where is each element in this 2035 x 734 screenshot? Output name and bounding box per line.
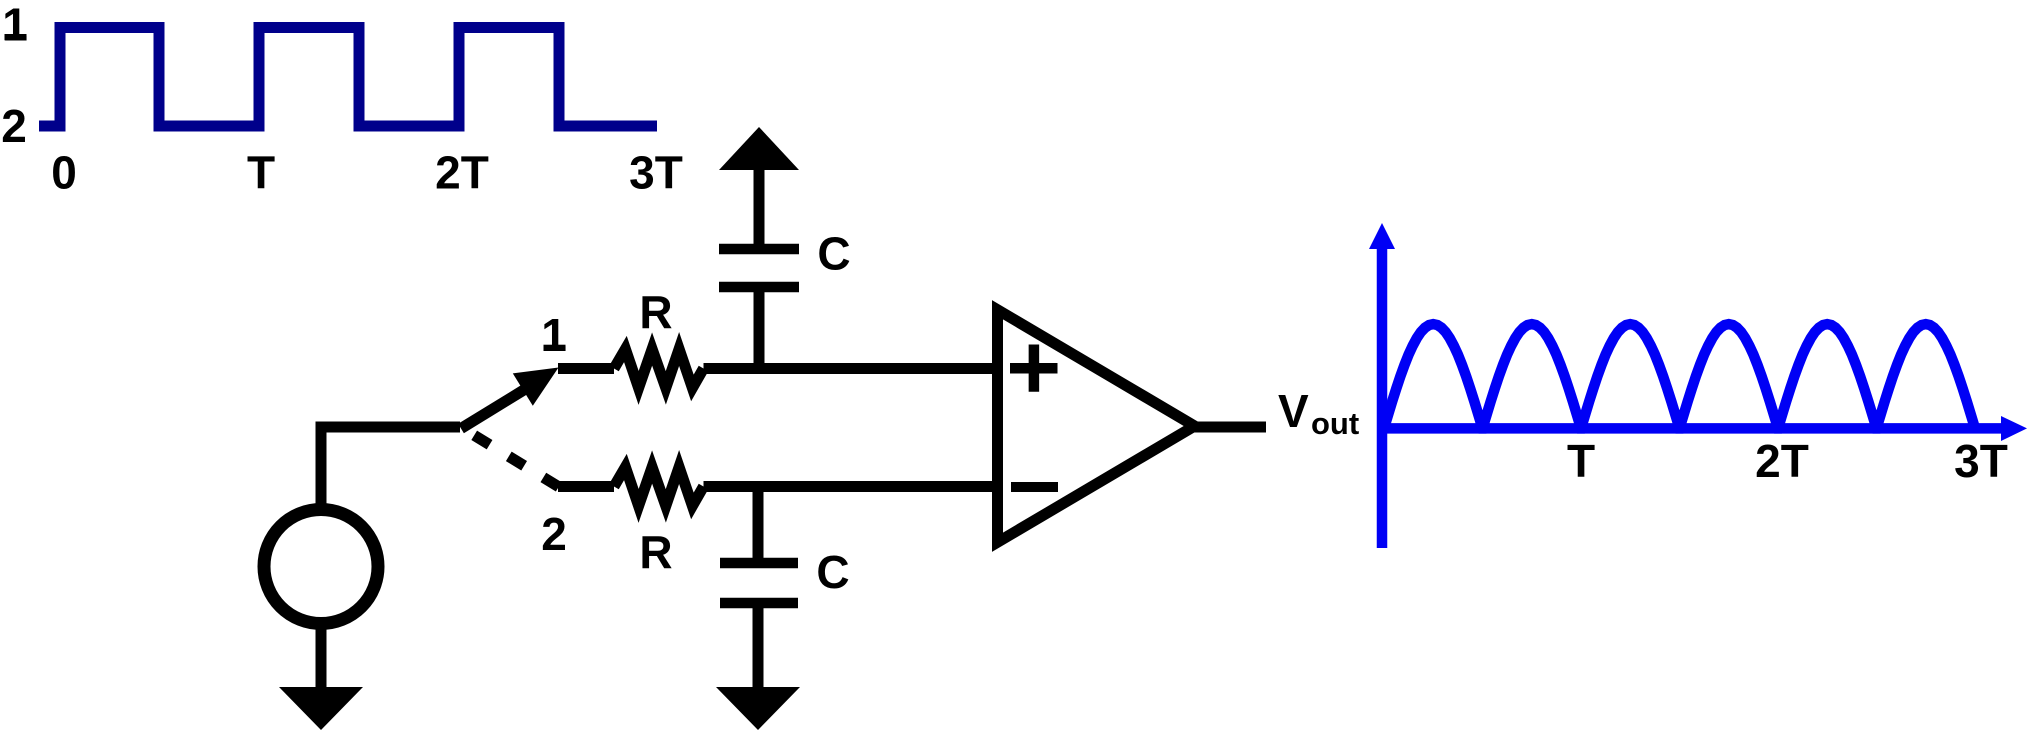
wire source to switch pivot xyxy=(321,427,460,504)
output graph x-axis xyxy=(1382,423,2002,434)
svg-text:0: 0 xyxy=(51,147,77,199)
resistor R1 xyxy=(614,349,704,388)
op-amp U1 xyxy=(992,300,1205,552)
wire C1 to supply arrow xyxy=(754,170,765,249)
capacitor C2 upper plate xyxy=(720,558,798,569)
svg-text:2T: 2T xyxy=(435,147,489,199)
wire terminal1 to resistor R1 xyxy=(558,363,614,374)
svg-text:V: V xyxy=(1278,385,1309,437)
capacitor C1 lower plate xyxy=(719,282,799,293)
supply arrow above C1 xyxy=(719,127,799,170)
x-axis arrowhead xyxy=(2001,416,2027,441)
capacitor C1 upper plate xyxy=(719,244,799,255)
wire terminal2 to resistor R2 xyxy=(558,481,614,492)
svg-text:2T: 2T xyxy=(1755,435,1809,487)
ground under C2 xyxy=(716,687,800,730)
svg-text:3T: 3T xyxy=(629,147,683,199)
ground under source xyxy=(279,687,363,730)
wire node to capacitor C2 xyxy=(753,481,764,563)
wire node to capacitor C1 xyxy=(754,287,765,374)
svg-text:2: 2 xyxy=(541,508,567,560)
source V1 circle xyxy=(264,510,378,624)
wire C2 to ground xyxy=(753,603,764,690)
wire R2 to op-amp inverting input xyxy=(704,481,998,492)
input square wave V1 xyxy=(39,28,657,127)
wire source to ground xyxy=(316,629,327,692)
svg-text:3T: 3T xyxy=(1954,435,2008,487)
capacitor C2 lower plate xyxy=(720,598,798,609)
rectified sine output waveform xyxy=(1384,324,1975,428)
output wire xyxy=(1190,422,1266,433)
op-amp minus input xyxy=(1011,482,1058,492)
svg-text:R: R xyxy=(639,286,672,338)
svg-text:1: 1 xyxy=(541,309,567,361)
svg-text:T: T xyxy=(247,147,275,199)
switch dashed lever to position 2 xyxy=(474,435,559,487)
wire R1 to op-amp non-inverting input xyxy=(704,363,998,374)
switch arrowhead xyxy=(513,368,559,406)
svg-text:1: 1 xyxy=(2,0,28,50)
svg-text:2: 2 xyxy=(1,100,27,152)
switch lever to position 1 xyxy=(461,388,527,429)
y-axis arrowhead xyxy=(1369,223,1395,249)
svg-text:C: C xyxy=(816,546,849,598)
svg-text:R: R xyxy=(639,526,672,578)
output graph y-axis xyxy=(1377,246,1388,548)
op-amp plus input xyxy=(1010,345,1058,392)
resistor R2 xyxy=(614,467,704,506)
svg-text:C: C xyxy=(817,228,850,280)
svg-text:out: out xyxy=(1311,406,1359,441)
svg-text:T: T xyxy=(1567,435,1595,487)
